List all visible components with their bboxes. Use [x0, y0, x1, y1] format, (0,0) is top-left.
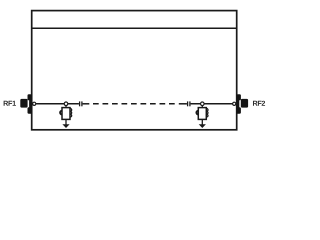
svg-text:RF1: RF1 — [3, 99, 16, 108]
resonator X2 (right) — [196, 106, 208, 126]
wire dashed to right cap — [179, 103, 187, 105]
node circle left — [64, 102, 68, 106]
node circle right — [201, 102, 205, 106]
ground arrow left — [62, 124, 69, 128]
connector RF1 pin — [33, 102, 36, 105]
lid seam line — [32, 27, 237, 29]
wire RF1 to left cap — [36, 103, 79, 105]
wire cap to dashed — [83, 103, 90, 105]
capacitor C1 plates — [80, 101, 82, 106]
capacitor C2 plates — [188, 101, 190, 106]
connector RF2 body — [237, 94, 248, 113]
connector RF1 body — [20, 94, 31, 113]
case outline — [32, 11, 237, 130]
resonator X1 (left) — [60, 106, 72, 126]
dashed coupling line — [93, 103, 175, 105]
ground arrow right — [199, 124, 206, 128]
svg-text:RF2: RF2 — [252, 99, 265, 108]
connector RF2 pin — [233, 102, 236, 105]
wire right cap to RF2 — [191, 103, 233, 105]
